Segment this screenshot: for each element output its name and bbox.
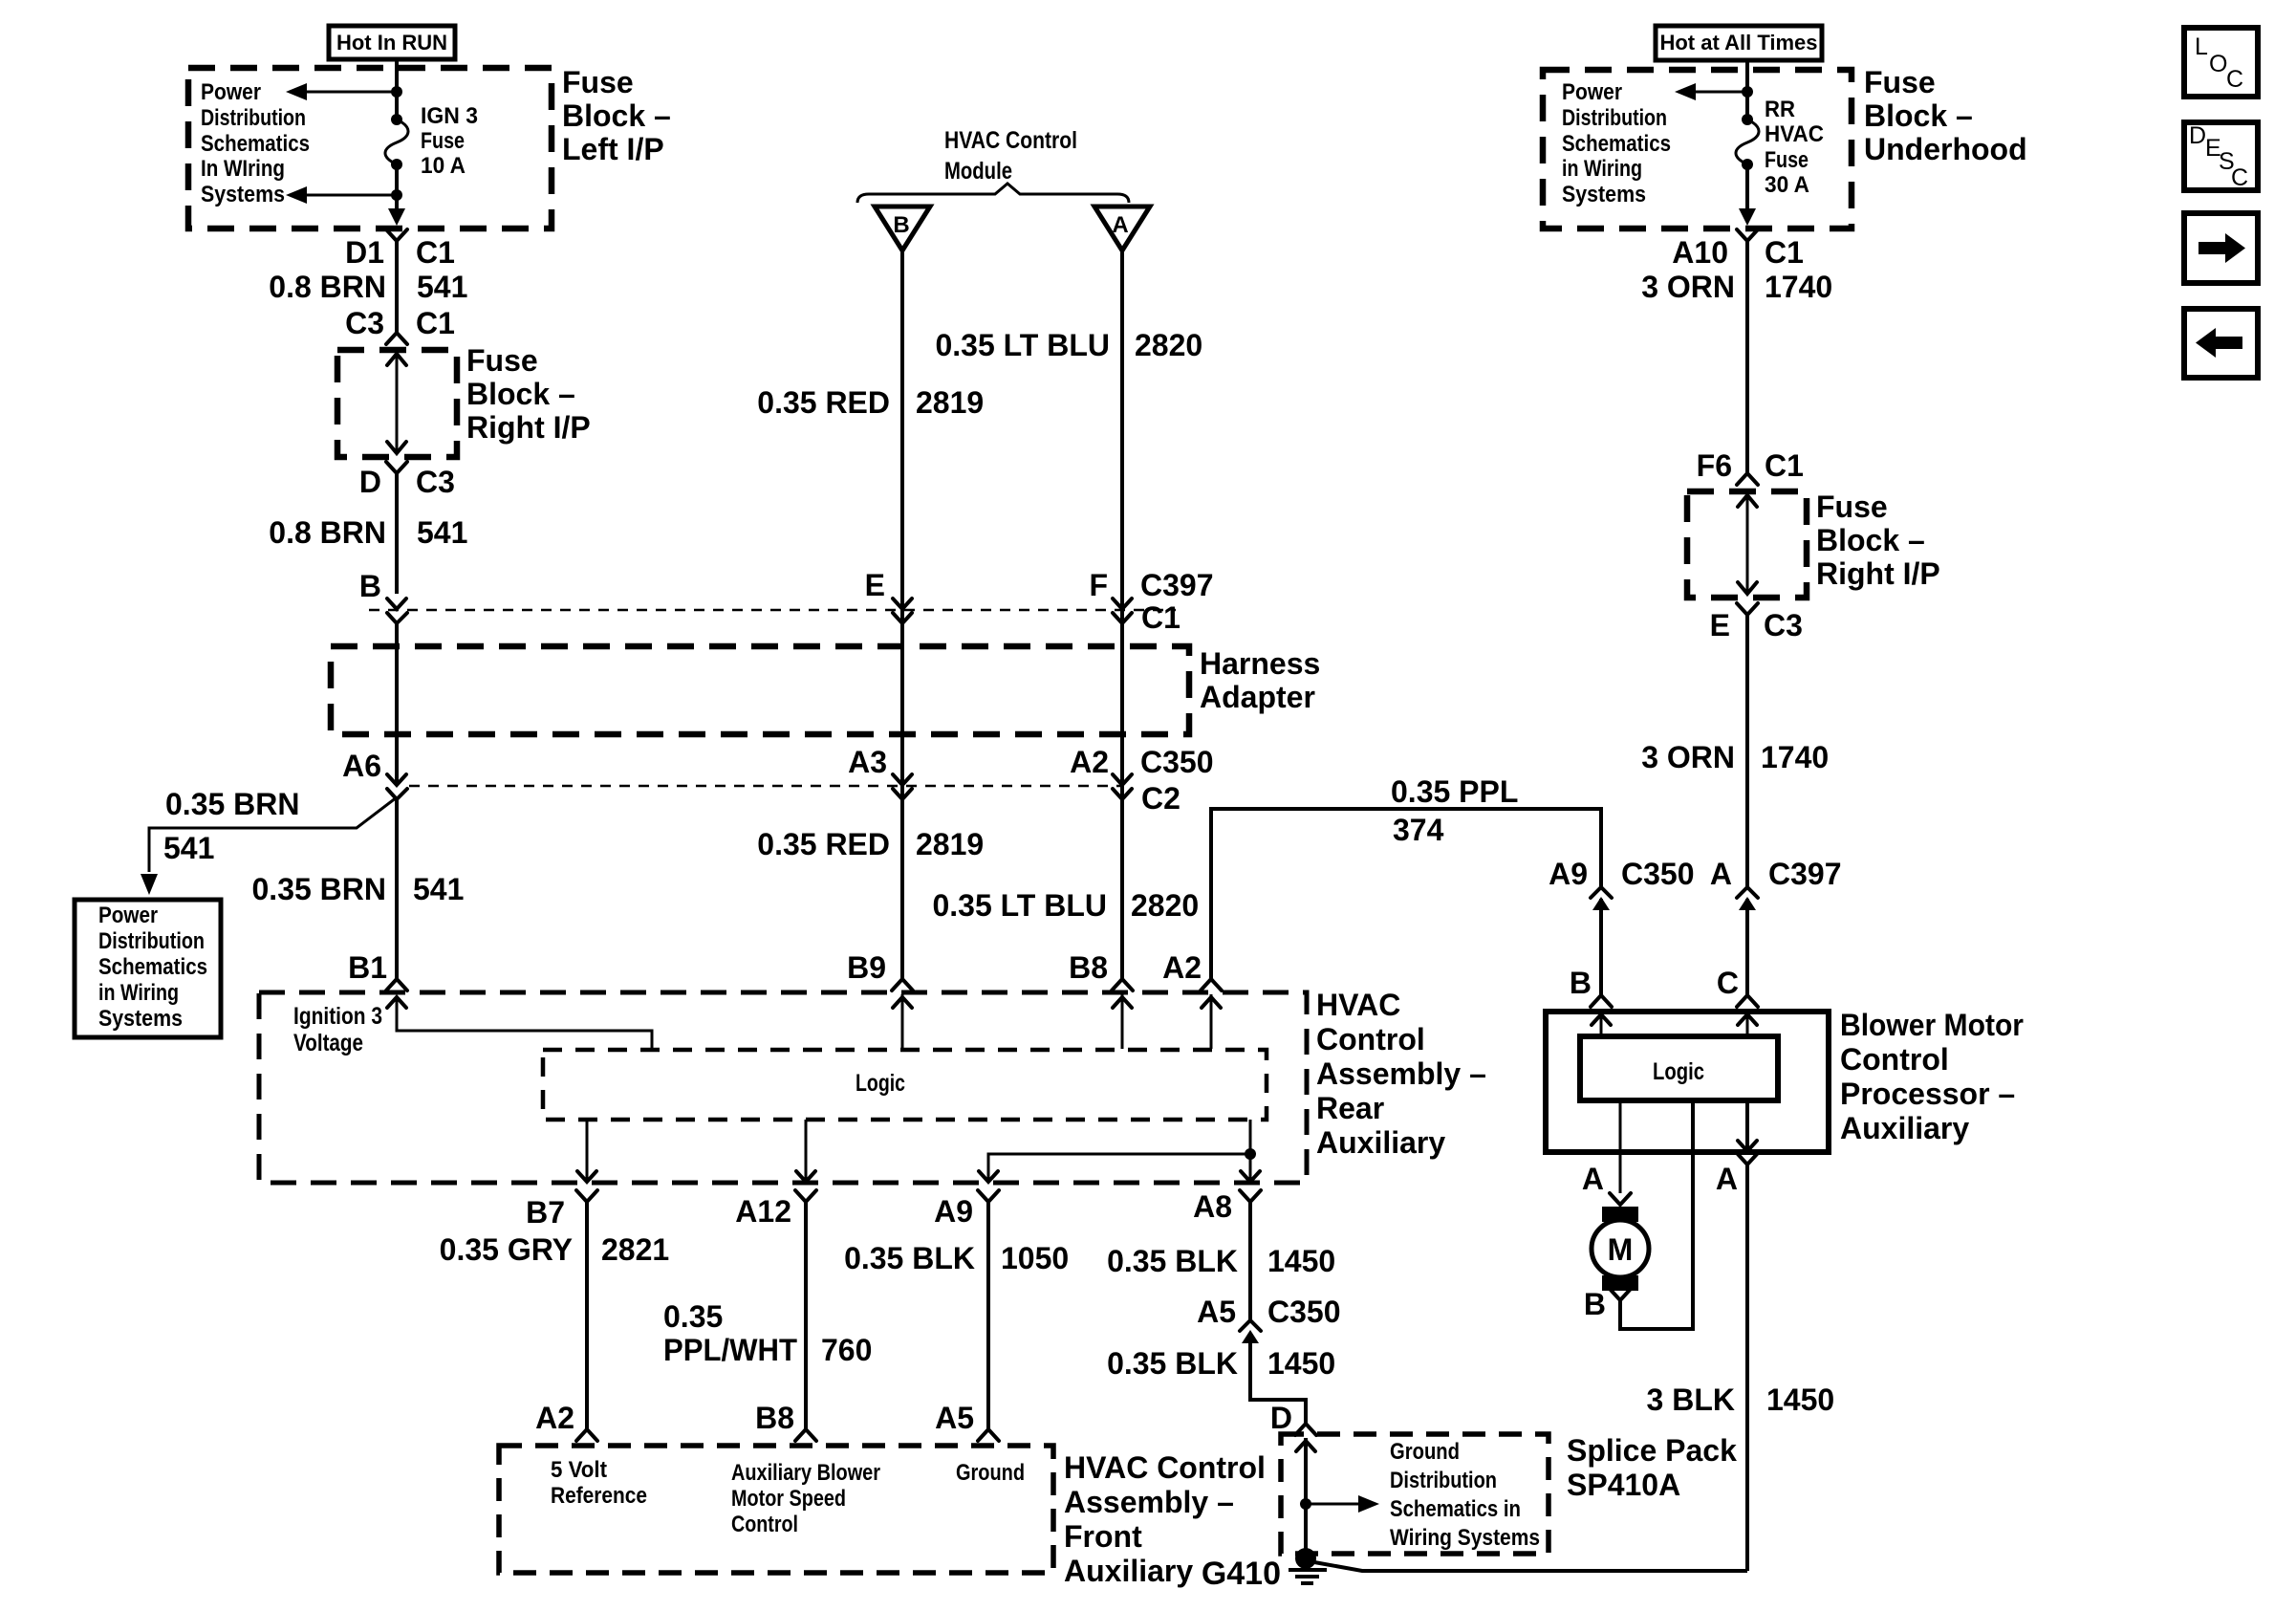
pin labels D / C3 bbox=[359, 465, 455, 499]
svg-text:B: B bbox=[359, 569, 381, 603]
connector chevron above right I/P fuse block (right column) bbox=[1737, 473, 1758, 485]
svg-text:Auxiliary Blower: Auxiliary Blower bbox=[731, 1460, 880, 1486]
svg-text:0.35 LT BLU: 0.35 LT BLU bbox=[932, 888, 1107, 923]
svg-text:0.8 BRN: 0.8 BRN bbox=[269, 270, 386, 304]
svg-text:Distribution: Distribution bbox=[1562, 105, 1667, 131]
svg-text:Schematics: Schematics bbox=[98, 954, 207, 980]
svg-text:Wiring Systems: Wiring Systems bbox=[1390, 1525, 1540, 1551]
svg-text:0.35 BLK: 0.35 BLK bbox=[844, 1241, 975, 1275]
thin dashed connector line C350/C2 bbox=[409, 785, 1121, 788]
text: Power Distribution Schematics in Wiring Systems (right fuse block) bbox=[1562, 79, 1671, 207]
svg-text:1740: 1740 bbox=[1761, 740, 1829, 774]
svg-text:B: B bbox=[893, 212, 909, 238]
svg-text:0.35 RED: 0.35 RED bbox=[757, 385, 890, 420]
svg-text:2819: 2819 bbox=[916, 385, 984, 420]
junction dot and arrow to ground distribution text bbox=[1300, 1495, 1379, 1513]
wire labels 0.35 BLK / 1050 bbox=[844, 1241, 1069, 1275]
svg-text:Ignition 3: Ignition 3 bbox=[293, 1003, 382, 1030]
wire A12 down to front aux B8 bbox=[804, 1202, 808, 1429]
connector chevron above rear aux box at A2 bbox=[1201, 979, 1222, 991]
wire arrow to Power Distribution Schematics (top) bbox=[286, 83, 397, 100]
svg-text:2821: 2821 bbox=[601, 1232, 669, 1267]
connector arrow at C350/C2 line (wire A) bbox=[1113, 774, 1132, 799]
svg-text:C3: C3 bbox=[1764, 608, 1803, 642]
wire labels 0.35 RED / 2819 (upper) bbox=[757, 385, 984, 420]
svg-text:Rear: Rear bbox=[1316, 1091, 1384, 1125]
connector chevron below bbox=[386, 462, 407, 473]
connector chevron above rear aux box at B8 bbox=[1112, 979, 1133, 991]
svg-text:Systems: Systems bbox=[1562, 182, 1646, 207]
svg-text:D: D bbox=[1270, 1401, 1292, 1435]
wire: A6 down to B1 bbox=[395, 799, 399, 979]
svg-text:Systems: Systems bbox=[201, 182, 285, 207]
svg-text:Assembly –: Assembly – bbox=[1316, 1056, 1486, 1091]
wire: 0.35 BRN 541 branch to power distribution box bbox=[141, 797, 397, 895]
svg-text:Power: Power bbox=[98, 903, 158, 928]
wire: fuse to bottom of box with down arrow bbox=[388, 164, 405, 226]
processor solid box bbox=[1546, 1012, 1829, 1152]
connector labels C397 / C1 bbox=[1140, 568, 1214, 635]
text inside solid box bbox=[98, 903, 207, 1032]
svg-text:C397: C397 bbox=[1768, 857, 1842, 891]
svg-text:1740: 1740 bbox=[1765, 270, 1832, 304]
svg-text:0.8 BRN: 0.8 BRN bbox=[269, 515, 386, 550]
svg-text:2819: 2819 bbox=[916, 827, 984, 861]
connector labels A5 / C350 bbox=[1197, 1295, 1340, 1329]
wire labels 3 ORN / 1740 (lower) bbox=[1641, 740, 1829, 774]
svg-text:A9: A9 bbox=[934, 1194, 973, 1229]
icon box DESC bbox=[2184, 122, 2258, 191]
node label: Hot In RUN bbox=[329, 26, 455, 59]
icon box LOC bbox=[2184, 28, 2258, 97]
wire: fuse to bottom of box with down arrow bbox=[1739, 164, 1756, 226]
svg-text:A: A bbox=[1716, 1162, 1738, 1196]
wire arrow to Power Distribution Schematics (bottom) bbox=[286, 186, 402, 204]
wire: Hot at All Times down bbox=[1745, 59, 1749, 120]
logic solid box bbox=[1580, 1036, 1778, 1100]
svg-text:in Wiring: in Wiring bbox=[98, 980, 179, 1006]
svg-text:Schematics: Schematics bbox=[201, 131, 310, 157]
svg-text:Right I/P: Right I/P bbox=[466, 410, 591, 445]
wire labels 0.8 BRN / 541 bbox=[269, 270, 467, 304]
svg-text:C1: C1 bbox=[1765, 448, 1804, 483]
svg-text:B: B bbox=[1570, 966, 1592, 1000]
svg-text:Module: Module bbox=[944, 158, 1012, 185]
svg-text:541: 541 bbox=[413, 872, 464, 906]
svg-text:RR: RR bbox=[1765, 97, 1795, 122]
svg-text:Auxiliary: Auxiliary bbox=[1064, 1554, 1193, 1588]
svg-text:C397: C397 bbox=[1140, 568, 1214, 602]
pin labels F6 / C1 bbox=[1697, 448, 1804, 483]
svg-text:Power: Power bbox=[1562, 79, 1622, 105]
connector chevron below rear aux at B7 bbox=[576, 1190, 597, 1202]
svg-text:B8: B8 bbox=[1069, 950, 1108, 985]
svg-text:In WIring: In WIring bbox=[201, 156, 285, 182]
svg-text:Control: Control bbox=[731, 1512, 798, 1537]
wire labels 0.35 BRN / 541 (branch) bbox=[163, 787, 300, 865]
svg-text:Fuse: Fuse bbox=[1864, 65, 1936, 99]
svg-text:D: D bbox=[2189, 122, 2206, 149]
svg-text:Distribution: Distribution bbox=[201, 105, 306, 131]
junction node dot bbox=[391, 86, 402, 98]
brace over module pins bbox=[857, 184, 1129, 203]
svg-text:10 A: 10 A bbox=[421, 153, 466, 179]
pin labels A10 / C1 bbox=[1672, 235, 1804, 270]
wire: ignition 3 voltage to logic bbox=[387, 997, 652, 1049]
wire A9 down to front aux A5 bbox=[986, 1202, 990, 1429]
svg-text:Schematics: Schematics bbox=[1562, 131, 1671, 157]
connector chevron above front aux at A5 bbox=[978, 1429, 999, 1441]
svg-text:G410: G410 bbox=[1202, 1556, 1281, 1592]
svg-text:1450: 1450 bbox=[1766, 1382, 1834, 1417]
label: HVAC Control Assembly - Front Auxiliary bbox=[1064, 1450, 1266, 1588]
wire labels 0.8 BRN / 541 bbox=[269, 515, 467, 550]
svg-text:2820: 2820 bbox=[1131, 888, 1199, 923]
wire: motor B loop back to logic bbox=[1620, 1100, 1693, 1329]
pin labels E / C3 bbox=[1710, 608, 1803, 642]
module pin triangle B bbox=[875, 207, 930, 250]
svg-text:A6: A6 bbox=[342, 749, 381, 783]
svg-text:C1: C1 bbox=[1765, 235, 1804, 270]
svg-text:30 A: 30 A bbox=[1765, 172, 1809, 198]
svg-text:HVAC Control: HVAC Control bbox=[944, 127, 1077, 154]
fuse RR HVAC 30A symbol bbox=[1736, 114, 1759, 170]
svg-text:C3: C3 bbox=[416, 465, 455, 499]
connector chevron below bbox=[1737, 603, 1758, 615]
svg-text:A8: A8 bbox=[1193, 1189, 1232, 1224]
svg-text:A: A bbox=[1710, 857, 1732, 891]
svg-text:Schematics in: Schematics in bbox=[1390, 1496, 1521, 1522]
svg-text:C1: C1 bbox=[416, 235, 455, 270]
svg-text:Hot at All Times: Hot at All Times bbox=[1659, 31, 1817, 54]
svg-text:Underhood: Underhood bbox=[1864, 132, 2027, 166]
svg-text:Front: Front bbox=[1064, 1519, 1142, 1554]
text: Power Distribution Schematics In Wiring Systems (left fuse block) bbox=[201, 79, 310, 207]
wire: A10/C1 down to F6 bbox=[1745, 241, 1749, 473]
svg-text:IGN 3: IGN 3 bbox=[421, 103, 478, 129]
svg-text:HVAC: HVAC bbox=[1316, 988, 1400, 1022]
svg-text:Assembly –: Assembly – bbox=[1064, 1485, 1234, 1519]
connector chevron above processor at C bbox=[1737, 995, 1758, 1007]
label: Fuse Block - Right I/P (left column) bbox=[466, 343, 591, 445]
svg-text:3 BLK: 3 BLK bbox=[1647, 1382, 1735, 1417]
svg-text:A2: A2 bbox=[535, 1401, 574, 1435]
svg-text:HVAC Control: HVAC Control bbox=[1064, 1450, 1266, 1485]
wire B into logic with up arrow bbox=[1592, 1013, 1611, 1036]
connector chevron above front aux at A2 bbox=[576, 1429, 597, 1441]
wire: C1 to C3 bbox=[395, 241, 399, 335]
logic dashed box (rear aux) bbox=[543, 1050, 1267, 1120]
text: Ignition 3 Voltage bbox=[293, 1003, 382, 1056]
svg-text:A: A bbox=[1582, 1162, 1604, 1196]
front auxiliary dashed box bbox=[499, 1446, 1053, 1573]
connector labels A / C397 bbox=[1710, 857, 1842, 891]
svg-text:Distribution: Distribution bbox=[98, 928, 205, 954]
module pin triangle A bbox=[1094, 207, 1150, 250]
svg-text:C350: C350 bbox=[1140, 745, 1214, 779]
icon box arrow right bbox=[2184, 213, 2258, 283]
svg-text:B7: B7 bbox=[526, 1195, 565, 1230]
svg-text:F: F bbox=[1089, 568, 1108, 602]
svg-text:760: 760 bbox=[821, 1333, 872, 1367]
connector chevron at motor A bbox=[1610, 1193, 1631, 1205]
connector chevron below underhood fuse block bbox=[1737, 229, 1758, 241]
wire labels 3 BLK / 1450 bbox=[1647, 1382, 1835, 1417]
wire A8 from logic down with junction bbox=[1241, 1120, 1260, 1182]
motor M bbox=[1592, 1207, 1649, 1291]
label: Fuse Block - Right I/P (right column) bbox=[1816, 490, 1940, 591]
wire labels 0.35 LT BLU / 2820 (upper) bbox=[935, 328, 1202, 362]
inline connector C397 double chevron bbox=[1737, 887, 1758, 910]
svg-text:Left I/P: Left I/P bbox=[562, 132, 664, 166]
svg-text:0.35 RED: 0.35 RED bbox=[757, 827, 890, 861]
svg-text:C: C bbox=[2226, 66, 2243, 93]
fuse block right I/P dashed box (right column) bbox=[1687, 491, 1807, 598]
svg-text:Fuse: Fuse bbox=[1765, 147, 1809, 173]
svg-text:Blower Motor: Blower Motor bbox=[1840, 1008, 2024, 1042]
svg-text:O: O bbox=[2209, 51, 2227, 77]
svg-text:Systems: Systems bbox=[98, 1006, 183, 1032]
svg-text:0.35 BRN: 0.35 BRN bbox=[252, 872, 387, 906]
label: HVAC Control Module bbox=[944, 127, 1077, 185]
svg-text:541: 541 bbox=[163, 831, 214, 865]
wire B7 down to front aux A2 bbox=[585, 1202, 589, 1429]
svg-text:Control: Control bbox=[1840, 1042, 1949, 1077]
connector chevron above front aux at B8 bbox=[795, 1429, 816, 1441]
fuse block underhood dashed box bbox=[1543, 70, 1852, 229]
connector chevron below rear aux at A8 bbox=[1240, 1190, 1261, 1202]
svg-text:D: D bbox=[359, 465, 381, 499]
wire: Hot In RUN down into fuse block bbox=[395, 59, 399, 120]
svg-text:B: B bbox=[1584, 1287, 1606, 1321]
svg-text:PPL/WHT: PPL/WHT bbox=[663, 1333, 797, 1367]
svg-text:C3: C3 bbox=[345, 306, 384, 340]
ground G410 dot bbox=[1295, 1548, 1316, 1569]
svg-text:0.35 PPL: 0.35 PPL bbox=[1391, 774, 1518, 809]
label: Fuse Block - Left I/P bbox=[562, 65, 671, 166]
connector chevron below left fuse block bbox=[386, 229, 407, 241]
svg-text:Block –: Block – bbox=[1816, 523, 1925, 557]
svg-text:0.35 BLK: 0.35 BLK bbox=[1107, 1244, 1238, 1278]
svg-text:Fuse: Fuse bbox=[466, 343, 538, 378]
svg-text:Ground: Ground bbox=[1390, 1439, 1460, 1465]
svg-text:3 ORN: 3 ORN bbox=[1641, 270, 1735, 304]
wire labels 0.35 BLK / 1450 (lower) bbox=[1107, 1346, 1335, 1381]
wire C into logic with up arrow bbox=[1738, 1013, 1757, 1036]
svg-text:Fuse: Fuse bbox=[562, 65, 634, 99]
rear auxiliary dashed box bbox=[259, 992, 1307, 1183]
ground symbol bbox=[1289, 1570, 1327, 1583]
wire: 3 BLK 1450 down to ground bus bbox=[1745, 1165, 1749, 1571]
svg-text:A10: A10 bbox=[1672, 235, 1728, 270]
solid box: Power Distribution Schematics in Wiring Systems bbox=[75, 900, 221, 1037]
connector arrow at C397/C1 line (wire B1 column) bbox=[387, 599, 407, 623]
svg-text:C350: C350 bbox=[1621, 857, 1695, 891]
wire: E/C3 down to C397 bbox=[1745, 615, 1749, 886]
svg-text:C1: C1 bbox=[1141, 600, 1180, 635]
wire: D/C3 down to B bbox=[395, 473, 399, 594]
wire: module B down (0.35 RED 2819) bbox=[900, 250, 904, 979]
text: 5 Volt Reference bbox=[551, 1457, 647, 1509]
label: RR HVAC Fuse 30 A bbox=[1765, 97, 1824, 198]
svg-text:F6: F6 bbox=[1697, 448, 1732, 483]
junction node dot bbox=[1742, 86, 1753, 98]
svg-text:Logic: Logic bbox=[856, 1070, 905, 1097]
inline connector C350 double chevron (A8 wire) bbox=[1240, 1320, 1261, 1343]
svg-text:Block –: Block – bbox=[1864, 98, 1973, 133]
connector chevron above processor at B bbox=[1591, 995, 1612, 1007]
wire C through processor down with arrow bbox=[1738, 1100, 1757, 1151]
connector arrow at C397/C1 line (wire A) bbox=[1113, 599, 1132, 623]
label: Fuse Block - Underhood bbox=[1864, 65, 2027, 166]
wire labels 0.35 BLK / 1450 (upper) bbox=[1107, 1244, 1335, 1278]
svg-text:in Wiring: in Wiring bbox=[1562, 156, 1642, 182]
wire arrow to Power Distribution Schematics (right) bbox=[1675, 83, 1747, 100]
svg-text:E: E bbox=[1710, 608, 1730, 642]
svg-text:2820: 2820 bbox=[1135, 328, 1202, 362]
thin dashed connector line C397/C1 bbox=[369, 609, 1176, 612]
svg-text:0.35: 0.35 bbox=[663, 1299, 723, 1334]
svg-text:Auxiliary: Auxiliary bbox=[1316, 1125, 1445, 1160]
label: Harness Adapter bbox=[1200, 646, 1320, 714]
svg-text:SP410A: SP410A bbox=[1567, 1468, 1680, 1502]
connector chevron at motor B bbox=[1610, 1289, 1631, 1300]
splice pack dashed box bbox=[1281, 1434, 1549, 1554]
fuse IGN 3 10A symbol bbox=[385, 114, 408, 170]
connector chevron below rear aux at A12 bbox=[795, 1190, 816, 1202]
svg-text:C1: C1 bbox=[416, 306, 455, 340]
fuse block left I/P dashed box bbox=[188, 68, 552, 229]
connector chevron above splice at D bbox=[1295, 1424, 1316, 1435]
svg-text:Distribution: Distribution bbox=[1390, 1468, 1497, 1493]
wire: 0.35 PPL 374 from rear aux A2 up and right to C350 A9 bbox=[1211, 809, 1601, 979]
wire: C350 A9 down to processor pin B bbox=[1599, 899, 1603, 995]
svg-text:1050: 1050 bbox=[1001, 1241, 1069, 1275]
svg-text:A: A bbox=[1112, 212, 1128, 238]
connector arrow at C397/C1 line (wire B) bbox=[893, 599, 912, 623]
svg-text:5 Volt: 5 Volt bbox=[551, 1457, 607, 1483]
connector labels A9 / C350 bbox=[1549, 857, 1694, 891]
fuse block right I/P dashed box (left column) bbox=[337, 350, 457, 457]
svg-text:B1: B1 bbox=[348, 950, 387, 985]
svg-text:Motor Speed: Motor Speed bbox=[731, 1486, 846, 1512]
svg-text:A9: A9 bbox=[1549, 857, 1588, 891]
pin labels D1 / C1 bbox=[345, 235, 455, 270]
svg-text:Splice Pack: Splice Pack bbox=[1567, 1433, 1737, 1468]
wire A12 from logic down through box edge bbox=[796, 1120, 815, 1182]
wire B8 into logic with up arrow bbox=[1113, 994, 1132, 1049]
svg-text:Ground: Ground bbox=[956, 1460, 1025, 1486]
svg-text:0.35 BRN: 0.35 BRN bbox=[165, 787, 300, 821]
wire: down to A6 bbox=[395, 623, 399, 784]
wire labels 0.35 RED / 2819 (lower) bbox=[757, 827, 984, 861]
wire A2 into logic with up arrow bbox=[1202, 994, 1221, 1049]
label: Splice Pack SP410A bbox=[1567, 1433, 1737, 1502]
wire B9 into logic with up arrow bbox=[893, 994, 912, 1049]
svg-text:Right I/P: Right I/P bbox=[1816, 556, 1940, 591]
wire: module A down (0.35 LT BLU 2820) bbox=[1120, 250, 1124, 979]
svg-text:Adapter: Adapter bbox=[1200, 680, 1315, 714]
svg-text:0.35 LT BLU: 0.35 LT BLU bbox=[935, 328, 1110, 362]
svg-text:C: C bbox=[1717, 966, 1739, 1000]
wire A8 down to A5/C350 bbox=[1248, 1202, 1252, 1320]
svg-text:374: 374 bbox=[1393, 813, 1444, 847]
harness adapter dashed box bbox=[331, 646, 1189, 734]
wire: ground bus to 3 BLK 1450 bbox=[1314, 1562, 1747, 1571]
wire labels 0.35 GRY / 2821 bbox=[440, 1232, 670, 1267]
wire labels 3 ORN / 1740 (upper) bbox=[1641, 270, 1832, 304]
wire A (left) from logic to motor bbox=[1619, 1100, 1622, 1193]
svg-text:541: 541 bbox=[417, 270, 467, 304]
wire B7 from logic down through box edge bbox=[577, 1120, 596, 1182]
svg-text:Hot In RUN: Hot In RUN bbox=[336, 31, 447, 54]
wire labels 0.35 LT BLU / 2820 (lower) bbox=[932, 888, 1199, 923]
label: Blower Motor Control Processor - Auxiliary bbox=[1840, 1008, 2024, 1145]
svg-text:C350: C350 bbox=[1267, 1295, 1341, 1329]
svg-text:HVAC: HVAC bbox=[1765, 121, 1824, 147]
connector chevron below rear aux at A9 bbox=[978, 1190, 999, 1202]
svg-text:A12: A12 bbox=[735, 1194, 791, 1229]
svg-text:Fuse: Fuse bbox=[421, 128, 465, 154]
svg-text:A3: A3 bbox=[848, 745, 887, 779]
text: Ground Distribution Schematics in Wiring Systems bbox=[1390, 1439, 1540, 1551]
svg-text:B8: B8 bbox=[755, 1401, 794, 1435]
label: IGN 3 Fuse 10 A bbox=[421, 103, 478, 179]
svg-text:Processor –: Processor – bbox=[1840, 1077, 2015, 1111]
svg-text:1450: 1450 bbox=[1267, 1244, 1335, 1278]
svg-text:1450: 1450 bbox=[1267, 1346, 1335, 1381]
icon box arrow left bbox=[2184, 309, 2258, 378]
label: HVAC Control Assembly - Rear Auxiliary bbox=[1316, 988, 1486, 1160]
svg-text:D1: D1 bbox=[345, 235, 384, 270]
svg-text:Control: Control bbox=[1316, 1022, 1425, 1056]
connector chevron above rear aux box at B1 bbox=[386, 979, 407, 991]
text: Auxiliary Blower Motor Speed Control bbox=[731, 1460, 880, 1537]
svg-text:Voltage: Voltage bbox=[293, 1030, 363, 1056]
connector arrow at C350/C2 line (wire B) bbox=[893, 774, 912, 799]
connector chevron below processor at A bbox=[1737, 1153, 1758, 1165]
wire labels 0.35 PPL / 374 bbox=[1391, 774, 1518, 847]
svg-text:A5: A5 bbox=[1197, 1295, 1236, 1329]
pin labels C3 / C1 bbox=[345, 306, 455, 340]
svg-text:Fuse: Fuse bbox=[1816, 490, 1888, 524]
wire labels 0.35 BRN / 541 (main) bbox=[252, 872, 465, 906]
svg-text:Harness: Harness bbox=[1200, 646, 1320, 681]
svg-text:Logic: Logic bbox=[1653, 1058, 1704, 1085]
connector chevron above right I/P fuse block (left column) bbox=[386, 333, 407, 344]
svg-text:C2: C2 bbox=[1141, 781, 1180, 816]
connector labels C350 / C2 bbox=[1140, 745, 1214, 816]
svg-text:Block –: Block – bbox=[562, 98, 671, 133]
double arrow wire inside fuse block bbox=[387, 354, 406, 453]
svg-text:C: C bbox=[2231, 164, 2248, 191]
inline connector C350 double chevron bbox=[1591, 887, 1612, 910]
svg-text:M: M bbox=[1608, 1232, 1634, 1267]
svg-text:L: L bbox=[2195, 33, 2208, 60]
wire inside splice pack with up arrow bbox=[1296, 1438, 1315, 1558]
double arrow wire inside fuse block bbox=[1738, 495, 1757, 594]
svg-text:3 ORN: 3 ORN bbox=[1641, 740, 1735, 774]
svg-text:541: 541 bbox=[417, 515, 467, 550]
svg-text:Auxiliary: Auxiliary bbox=[1840, 1111, 1969, 1145]
svg-text:A2: A2 bbox=[1162, 950, 1202, 985]
svg-text:Power: Power bbox=[201, 79, 261, 105]
node label: Hot at All Times bbox=[1656, 26, 1822, 60]
svg-text:A5: A5 bbox=[935, 1401, 974, 1435]
wire A9 from junction left and down through box edge bbox=[979, 1154, 1250, 1182]
wire: C397 A down to processor pin C bbox=[1745, 899, 1749, 995]
svg-text:A2: A2 bbox=[1070, 745, 1109, 779]
